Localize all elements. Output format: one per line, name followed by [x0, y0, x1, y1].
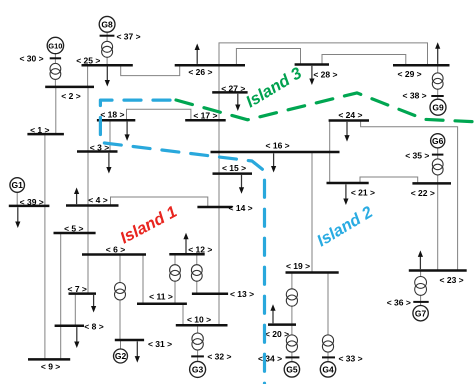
generator G10 [47, 37, 63, 53]
generator G9 [430, 99, 446, 115]
bus 7 [69, 292, 97, 295]
svg-text:< 14 >: < 14 > [229, 203, 253, 213]
bus 13 [192, 293, 228, 296]
load arrow bus 12 [183, 233, 188, 253]
bus 27 [212, 91, 247, 94]
bus 28 [295, 63, 329, 66]
transformer T31 [115, 283, 126, 301]
svg-text:G10: G10 [48, 42, 62, 51]
wire line 14-15 [218, 174, 220, 207]
svg-text:< 4 >: < 4 > [88, 195, 107, 205]
bus 17 [185, 119, 226, 122]
load arrow bus 8 [74, 327, 79, 348]
bus 11 [137, 302, 187, 305]
wire line 5-6 [87, 233, 89, 255]
svg-text:< 29 >: < 29 > [398, 69, 422, 79]
load arrow bus 3 [106, 153, 111, 174]
svg-text:G4: G4 [322, 365, 334, 375]
wire line 9-39 [44, 206, 46, 360]
bus 8 [55, 325, 84, 328]
wire line 15-16 [218, 152, 220, 174]
svg-text:< 7 >: < 7 > [68, 284, 87, 294]
wire line 23-24 [361, 121, 458, 271]
transformer T1211 [170, 265, 181, 281]
wire line 26-28 [236, 49, 300, 66]
bus 31 [115, 339, 144, 342]
generator G8 [99, 16, 115, 32]
svg-text:< 1 >: < 1 > [30, 125, 49, 135]
svg-text:< 12 >: < 12 > [188, 244, 212, 254]
wire line 8-9 [60, 326, 62, 360]
svg-text:< 13 >: < 13 > [230, 289, 254, 299]
generator G3 [190, 361, 206, 377]
svg-text:G5: G5 [286, 365, 298, 375]
svg-text:< 8 >: < 8 > [84, 322, 103, 332]
bus 10 [176, 324, 228, 327]
wire G2 stem [120, 340, 122, 349]
wire line 6-11 [142, 255, 144, 304]
wire line 20-34 to G5 [291, 325, 293, 362]
wire G7 feeder from bus 23 [420, 271, 422, 306]
bus 20 [268, 323, 296, 326]
bus 22 [412, 182, 451, 185]
bus 18 [97, 119, 135, 122]
wire G10 feeder to bus 2 [54, 54, 56, 87]
load arrow bus 25 [105, 67, 110, 87]
wire line 17-27 [218, 92, 220, 120]
bus 32 (generator terminal) [191, 355, 204, 357]
svg-text:G9: G9 [432, 102, 444, 112]
svg-text:< 24 >: < 24 > [338, 110, 362, 120]
svg-text:< 16 >: < 16 > [266, 140, 290, 150]
svg-text:< 39 >: < 39 > [20, 197, 44, 207]
load arrow bus 26 [195, 44, 200, 64]
load arrow bus 4 [74, 188, 79, 205]
transformer T35 [432, 159, 443, 175]
wire line 28-29 [322, 55, 406, 66]
transformer T34 [286, 335, 297, 352]
svg-text:< 15 >: < 15 > [222, 163, 246, 173]
wire line 10-13 [218, 294, 220, 325]
wire G6 feeder to bus 22 [437, 141, 439, 183]
bus 14 [197, 206, 232, 209]
wire line 19-20 [291, 273, 293, 325]
bus 21 [327, 182, 369, 185]
transformer T33 [322, 335, 333, 352]
wire G8 feeder to bus 25 [106, 32, 108, 65]
svg-text:< 22 >: < 22 > [411, 188, 435, 198]
transformer T20 [286, 289, 297, 306]
wire line 22-23 [437, 183, 439, 270]
generator G7 [413, 306, 428, 321]
wire line 12-13 [196, 254, 198, 293]
load arrow bus 27 [235, 94, 240, 111]
svg-text:< 34 >: < 34 > [258, 353, 282, 363]
wire line 1-39 [44, 134, 46, 206]
bus 29 [393, 64, 450, 67]
wire line 16-19 [311, 152, 313, 273]
wire line 4-5 [87, 206, 89, 234]
svg-text:< 11 >: < 11 > [149, 292, 173, 302]
wire line 6-31 [119, 255, 121, 341]
load arrow bus 16 [271, 153, 276, 172]
wire line 1-2 [55, 87, 57, 134]
load arrow bus 39 [15, 207, 20, 228]
svg-text:< 18 >: < 18 > [100, 110, 124, 120]
island boundary blue dashed (between Island 1 and Island 2) [100, 100, 264, 384]
bus 38 (generator terminal) [431, 95, 443, 97]
wire bus 10 to G3 [197, 325, 199, 361]
bus 30 (generator terminal) [50, 57, 61, 59]
bus 19 [286, 271, 339, 274]
svg-text:< 10 >: < 10 > [187, 314, 211, 324]
load arrow bus 29 [435, 42, 440, 64]
wire line 26-29 [219, 43, 428, 65]
svg-text:G2: G2 [115, 351, 127, 361]
wire line 3-18 [109, 120, 111, 151]
bus 33 (generator terminal) [322, 356, 335, 358]
bus 23 [409, 269, 467, 272]
bus 35 (generator terminal) [432, 154, 444, 156]
load arrow bus 18 [125, 122, 130, 141]
wire line 26-27 [218, 65, 220, 92]
bus 12 [169, 253, 204, 256]
island boundary green dashed (Island 3 border) [176, 93, 474, 122]
generator G6 [431, 134, 445, 148]
load arrow bus 20 [270, 304, 275, 323]
wire line 13-14 [218, 207, 220, 294]
bus 5 [54, 232, 96, 235]
wire line 2-25 [87, 65, 89, 87]
svg-text:< 25 >: < 25 > [76, 56, 100, 66]
wire line 16-24 [329, 121, 331, 153]
svg-text:< 23 >: < 23 > [440, 275, 464, 285]
bus 1 [27, 133, 64, 136]
wire line 16-21 [329, 152, 331, 183]
wire line 10-11 [182, 304, 184, 326]
svg-text:< 21 >: < 21 > [351, 187, 375, 197]
svg-text:< 28 >: < 28 > [313, 70, 337, 80]
wire line 11-12 [174, 254, 176, 303]
bus 16 [211, 151, 340, 154]
wire line 6-7 [87, 255, 89, 294]
svg-text:< 33 >: < 33 > [338, 354, 362, 364]
load arrow bus 28 [309, 66, 314, 85]
wire line 4-14 [111, 197, 208, 207]
bus 24 [329, 119, 369, 122]
load arrow bus 21 [343, 184, 348, 205]
svg-text:< 27 >: < 27 > [221, 83, 245, 93]
load arrow bus 31 [135, 341, 140, 362]
generator G4 [320, 362, 335, 377]
transformer T36 [415, 277, 427, 296]
generator G1 [10, 178, 25, 193]
svg-text:< 38 >: < 38 > [403, 91, 427, 101]
bus 3 [77, 150, 118, 153]
bus 26 [175, 64, 245, 67]
wire line 17-18 [127, 109, 191, 120]
svg-text:< 35 >: < 35 > [405, 151, 429, 161]
wire line 7-8 [74, 294, 76, 326]
wire line 2-3 [87, 87, 89, 152]
transformer T38 [432, 73, 443, 89]
transformer T32 [192, 333, 203, 350]
svg-text:G7: G7 [415, 308, 427, 318]
svg-text:< 20 >: < 20 > [265, 329, 289, 339]
svg-text:< 2 >: < 2 > [61, 91, 80, 101]
svg-text:G6: G6 [432, 136, 444, 146]
wire line 21-22 [360, 177, 418, 183]
bus 37 (generator terminal) [100, 35, 115, 37]
wire line 5-8 [60, 233, 62, 326]
svg-text:< 6 >: < 6 > [106, 244, 125, 254]
svg-text:< 19 >: < 19 > [286, 261, 310, 271]
wire line 3-4 [87, 152, 89, 206]
bus 34 (generator terminal) [286, 356, 300, 358]
svg-text:G3: G3 [192, 365, 204, 375]
svg-text:< 31 >: < 31 > [148, 339, 172, 349]
svg-text:G8: G8 [101, 20, 113, 30]
bus 9 [28, 358, 70, 361]
load arrow bus 23 [418, 250, 423, 269]
load arrow bus 7 [91, 295, 96, 313]
transformer T1213 [191, 265, 202, 281]
load arrow bus 24 [344, 122, 349, 142]
wire line 19-33 to G4 [327, 273, 329, 362]
bus 4 [66, 204, 119, 207]
svg-text:G1: G1 [12, 180, 24, 190]
bus 39 [9, 205, 50, 208]
bus 6 [82, 253, 146, 256]
wire line 16-17 [218, 120, 220, 152]
wire line 25-26 [121, 65, 180, 75]
transformer T30 [50, 63, 61, 79]
svg-text:< 36 >: < 36 > [387, 298, 411, 308]
svg-text:< 32 >: < 32 > [207, 352, 231, 362]
svg-text:< 37 >: < 37 > [116, 32, 140, 42]
svg-text:< 5 >: < 5 > [64, 223, 83, 233]
transformer T37 [102, 41, 113, 57]
generator G2 [114, 349, 128, 363]
svg-text:< 9 >: < 9 > [41, 361, 60, 371]
bus 15 [213, 172, 253, 175]
svg-text:< 30 >: < 30 > [19, 54, 43, 64]
load arrow bus 15 [239, 175, 244, 194]
svg-text:< 26 >: < 26 > [188, 67, 212, 77]
wire G1 to bus 39 [16, 192, 18, 206]
bus 2 [45, 86, 94, 89]
generator G5 [284, 362, 299, 377]
bus 36 (generator terminal) [413, 301, 428, 303]
bus 25 [82, 64, 133, 67]
wire G9 feeder from bus 29 [437, 65, 439, 99]
